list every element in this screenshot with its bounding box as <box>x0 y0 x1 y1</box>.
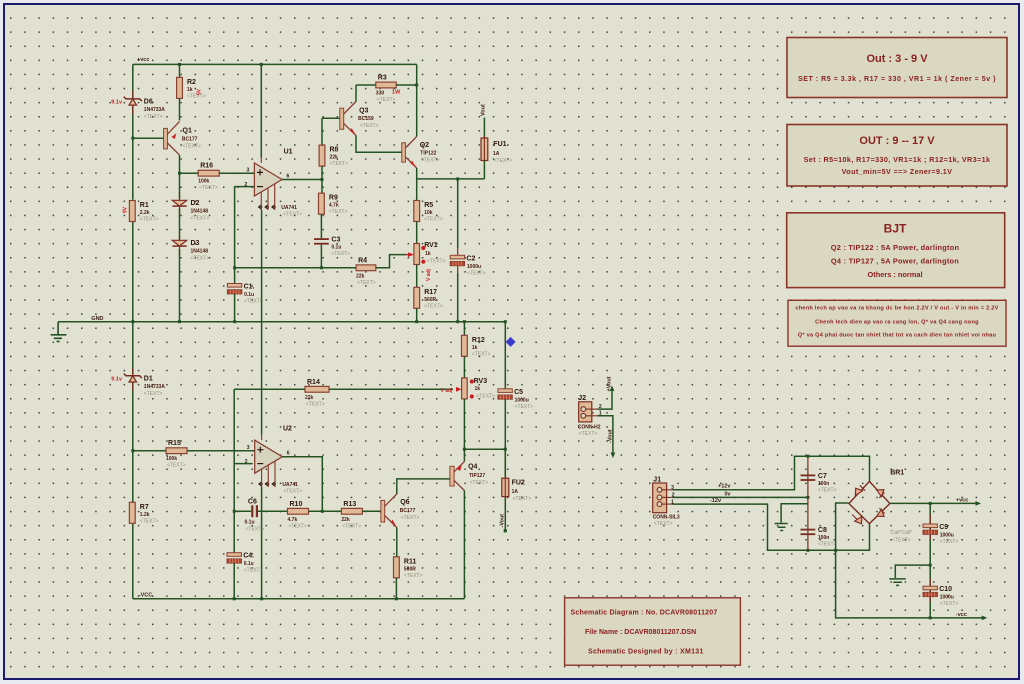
svg-text:<TEXT>: <TEXT> <box>818 488 837 494</box>
svg-text:<TEXT>: <TEXT> <box>182 144 201 150</box>
junction bridge left drop / -12v path <box>834 549 837 552</box>
junction U2 out / R10-R13 wire <box>321 510 324 513</box>
svg-text:<TEXT>: <TEXT> <box>404 573 423 579</box>
wire C6 left lead <box>234 510 251 512</box>
wire U2 output <box>282 457 322 512</box>
wire C3 to R4 node <box>320 245 322 268</box>
svg-text:UA741: UA741 <box>281 205 297 211</box>
svg-text:<TEXT>: <TEXT> <box>470 480 489 486</box>
note box warnings <box>788 300 1006 346</box>
svg-text:-Vout: -Vout <box>608 429 614 443</box>
svg-text:D6: D6 <box>144 99 153 106</box>
wire C6 to R10 <box>258 510 288 512</box>
junction C3 / R4 wire <box>320 266 323 269</box>
ground symbol near C9 <box>889 579 905 586</box>
svg-text:TIP127: TIP127 <box>469 473 485 479</box>
pin number U1.3 <box>247 168 250 174</box>
svg-text:R16: R16 <box>200 163 213 170</box>
svg-text:TIP122: TIP122 <box>420 150 436 156</box>
svg-text:CONN-SIL3: CONN-SIL3 <box>653 514 680 520</box>
svg-text:R8: R8 <box>330 147 339 154</box>
resistor R2 <box>177 77 206 99</box>
arrow -vcc <box>982 616 988 621</box>
svg-text:1.2k: 1.2k <box>140 512 150 518</box>
svg-text:R5: R5 <box>424 202 433 209</box>
wire ground branch at J1 <box>781 504 808 523</box>
junction U2 V- / -vcc rail <box>260 597 263 600</box>
svg-text:R2: R2 <box>187 79 196 86</box>
potentiometer RV3 <box>462 378 474 399</box>
transistor Q2 body <box>402 137 417 169</box>
wire D2-D3 <box>179 208 181 239</box>
svg-text:Chenh lech dien ap vao ra cang: Chenh lech dien ap vao ra cang lon, Q* v… <box>815 320 979 326</box>
wire R17 bottom <box>416 308 418 321</box>
wire C10 pins (maroon) <box>929 578 931 602</box>
wire bridge - output to -vcc <box>836 503 983 618</box>
resistor R5 <box>414 201 443 223</box>
svg-text:0.1u: 0.1u <box>244 292 254 298</box>
wire left rail upper <box>132 64 134 199</box>
net label +vcc right <box>956 497 968 503</box>
junction 0v / C7-C8 column <box>806 496 809 499</box>
svg-text:CONN-H2: CONN-H2 <box>578 425 601 431</box>
wire J1 pin2 (0v) <box>673 496 808 498</box>
resistor R16 <box>198 163 219 192</box>
label RV3 <box>474 378 495 400</box>
svg-text:<TEXT>: <TEXT> <box>191 255 210 261</box>
wire feedback column to C4 <box>233 464 235 553</box>
svg-text:C10: C10 <box>939 586 952 593</box>
svg-text:Others : normal: Others : normal <box>867 270 922 279</box>
svg-text:3: 3 <box>247 168 250 174</box>
resistor R15 <box>166 440 187 469</box>
wire R14 left segment <box>234 388 305 390</box>
wire C7-C8 column <box>807 456 809 550</box>
wire R3 right <box>396 84 417 86</box>
annotation 9V (red, rotated) <box>123 206 129 213</box>
wire RV3 node to C5 node <box>464 448 505 450</box>
wire U1 output <box>282 179 322 181</box>
svg-text:560R: 560R <box>404 566 416 572</box>
svg-text:<TEXT>: <TEXT> <box>424 303 443 309</box>
wire left rail mid <box>132 222 134 375</box>
pin number U1.2 <box>245 182 248 188</box>
wire C2 bottom pin <box>457 266 459 273</box>
junction C9-C10 / ground branch <box>929 564 932 567</box>
wire J2 pin1 to -Vout arrow <box>598 416 613 454</box>
wire bridge + output to +vcc <box>891 502 977 504</box>
wire J1 pin3 (+12v) to bridge <box>673 456 870 490</box>
svg-text:9.1v: 9.1v <box>111 100 123 106</box>
svg-text:<TEXT>: <TEXT> <box>330 161 349 167</box>
svg-text:1N4733A: 1N4733A <box>144 384 166 390</box>
svg-text:0.1u: 0.1u <box>244 561 254 567</box>
wire R2 top <box>179 64 181 77</box>
svg-text:FU1: FU1 <box>493 141 506 148</box>
svg-text:+vcc: +vcc <box>137 57 149 63</box>
svg-text:1k: 1k <box>475 386 481 392</box>
wire -vcc rail <box>133 598 465 600</box>
label J2 value <box>578 425 601 437</box>
wire vcc right drop <box>416 64 418 136</box>
svg-text:1000u: 1000u <box>515 397 529 403</box>
svg-text:C4.: C4. <box>243 553 254 560</box>
svg-text:R17: R17 <box>424 289 437 296</box>
wire Q6 collector to Q4 base <box>397 479 450 494</box>
svg-text:D1: D1 <box>144 376 153 383</box>
note box BJT <box>787 213 1005 288</box>
resistor R9 <box>319 193 348 215</box>
svg-text:1000u: 1000u <box>467 264 481 270</box>
junction C5 / RV3 node <box>504 448 507 451</box>
svg-text:V adj: V adj <box>426 268 432 281</box>
svg-text:22k: 22k <box>330 155 339 161</box>
wire D3 to ground rail <box>179 249 181 322</box>
junction R16 tap <box>178 172 181 175</box>
wire C5 bottom lead <box>504 399 506 478</box>
svg-text:Q4 : TIP127 , 5A Power, darlin: Q4 : TIP127 , 5A Power, darlington <box>831 257 959 266</box>
svg-text:Q4: Q4 <box>468 464 477 471</box>
svg-text:<TEXT>: <TEXT> <box>331 251 350 257</box>
wire C2 top lead <box>457 179 459 248</box>
junction R4 left node <box>233 266 236 269</box>
junction +vcc / U1 supply <box>260 63 263 66</box>
svg-text:<TEXT>: <TEXT> <box>144 391 163 397</box>
junction C8 bottom / -12v path <box>806 549 809 552</box>
svg-text:+vcc: +vcc <box>956 497 968 503</box>
label Q1 <box>182 128 201 150</box>
wire C2 bottom lead <box>457 273 459 322</box>
net label -Vout J2 (rotated) <box>608 429 614 443</box>
junction C1 / ground rail <box>233 320 236 323</box>
zener diode D6 <box>111 91 165 120</box>
svg-text:Vout_min=5V ==> Zener=9.1V: Vout_min=5V ==> Zener=9.1V <box>842 167 953 176</box>
pin number U1.6 <box>287 174 290 180</box>
svg-text:<TEXT>: <TEXT> <box>892 538 911 544</box>
wire FU1 bottom <box>483 161 485 179</box>
svg-text:'CaP'CaP': 'CaP'CaP' <box>890 530 912 536</box>
svg-text:<TEXT>: <TEXT> <box>467 270 486 276</box>
fuse FU1 <box>481 136 488 162</box>
pin number U2.6 <box>287 451 290 457</box>
label Q2 <box>420 142 440 163</box>
wire Q1 emitter down <box>179 155 181 199</box>
svg-text:RV1: RV1 <box>424 242 438 249</box>
label U2 <box>283 426 292 433</box>
svg-text:<TEXT>: <TEXT> <box>360 123 379 129</box>
capacitor C6 <box>251 505 258 517</box>
svg-text:Set : R5=10k, R17=330, VR1=1k: Set : R5=10k, R17=330, VR1=1k ; R12=1k, … <box>804 155 991 164</box>
wire J2 pin2 to +Vout arrow <box>598 390 613 409</box>
svg-text:<TEXT>: <TEXT> <box>283 212 302 218</box>
connector J1 <box>653 483 673 513</box>
svg-text:560R: 560R <box>424 297 436 303</box>
svg-text:R4: R4 <box>358 257 367 264</box>
svg-text:330: 330 <box>376 91 385 97</box>
svg-text:<TEXT>: <TEXT> <box>515 404 534 410</box>
svg-text:1k: 1k <box>187 87 193 93</box>
junction C6 node on feedback column <box>233 510 236 513</box>
svg-text:<TEXT>: <TEXT> <box>342 523 361 529</box>
svg-text:C3: C3 <box>331 237 340 244</box>
wire Q1 base <box>133 137 166 139</box>
junction R3 / vcc drop <box>415 84 418 87</box>
svg-text:<TEXT>: <TEXT> <box>476 393 495 399</box>
resistor R17 <box>414 287 443 309</box>
svg-text:R7: R7 <box>140 504 149 511</box>
svg-text:R1: R1 <box>140 202 149 209</box>
svg-text:<TEXT>: <TEXT> <box>140 518 159 524</box>
wire RV1-R17 <box>416 265 418 288</box>
junction C5 / ground rail <box>504 320 507 323</box>
wire R15 to U2 +in <box>187 450 255 452</box>
label U1 value <box>281 205 302 218</box>
svg-text:1k: 1k <box>472 345 478 351</box>
resistor R4 <box>356 257 376 286</box>
pin number J1.3 <box>671 485 674 491</box>
pin number U2.2 <box>245 459 248 465</box>
svg-text:1A: 1A <box>512 489 519 495</box>
svg-text:100k: 100k <box>166 456 177 462</box>
svg-text:D3: D3 <box>191 240 200 247</box>
capacitor C4 <box>227 553 262 574</box>
svg-text:<TEXT>: <TEXT> <box>940 539 959 545</box>
svg-text:9.1v: 9.1v <box>111 377 123 383</box>
note box OUT 9-17V <box>787 125 1007 187</box>
svg-text:OUT : 9 -- 17 V: OUT : 9 -- 17 V <box>859 135 935 147</box>
svg-text:1N4148: 1N4148 <box>191 248 209 254</box>
svg-text:2: 2 <box>245 459 248 465</box>
svg-text:4.7k: 4.7k <box>329 203 339 209</box>
wire R14 right segment <box>329 388 453 390</box>
svg-text:-VCC: -VCC <box>139 592 152 598</box>
terminal -Vout <box>504 529 507 532</box>
capacitor C7 <box>801 473 837 494</box>
wire R13 to Q6 base <box>362 510 381 512</box>
resistor R1 <box>129 201 158 223</box>
zener diode D1 <box>111 368 165 397</box>
annotation 5V (red, rotated) <box>197 88 203 95</box>
svg-text:C5: C5 <box>514 389 523 396</box>
net label +vcc <box>137 57 149 63</box>
resistor R13 <box>341 501 362 530</box>
svg-text:UA741: UA741 <box>282 482 298 488</box>
arrow +Vout <box>610 386 615 392</box>
resistor R8 <box>319 145 348 167</box>
pin number J1.1 <box>671 499 674 505</box>
svg-text:BJT: BJT <box>884 222 907 236</box>
svg-text:<TEXT>: <TEXT> <box>940 601 959 607</box>
svg-text:R10: R10 <box>290 501 303 508</box>
junction RV3 bottom corner <box>463 448 466 451</box>
wire U1-U2 supply link <box>261 210 263 435</box>
label U2 value <box>282 482 302 495</box>
op-amp U1 <box>254 158 282 211</box>
svg-text:J2: J2 <box>578 395 586 402</box>
wire FU2 top <box>504 449 506 478</box>
junction C9 / +vcc wire <box>929 502 932 505</box>
svg-text:C9: C9 <box>939 524 948 531</box>
svg-text:Q2 : TIP122 : 5A Power, darlin: Q2 : TIP122 : 5A Power, darlington <box>831 243 960 252</box>
wire feedback down to U2 -in <box>234 389 253 463</box>
note box Out 3-9V <box>787 38 1007 98</box>
wire C5 top lead <box>504 322 506 389</box>
svg-text:22k: 22k <box>341 517 350 523</box>
label U1 <box>284 149 293 156</box>
svg-text:+12v: +12v <box>718 484 731 490</box>
title block <box>565 598 741 665</box>
fuse FU2 <box>502 477 509 499</box>
junction R11 / -vcc rail <box>395 597 398 600</box>
svg-text:<TEXT>: <TEXT> <box>244 568 263 574</box>
label J1 <box>653 476 661 483</box>
wire R16 to U1 +in <box>219 172 254 174</box>
op-amp U2 <box>255 435 283 487</box>
svg-text:R13: R13 <box>343 501 356 508</box>
svg-text:Q3: Q3 <box>359 107 368 114</box>
junction C10 / -vcc wire <box>929 616 932 619</box>
junction R17 / ground rail <box>415 320 418 323</box>
arrow -Vout <box>611 453 616 459</box>
svg-text:1000u: 1000u <box>940 533 954 539</box>
junction +vcc / R2 <box>178 63 181 66</box>
svg-text:-12v: -12v <box>710 498 722 504</box>
svg-text:0.1u: 0.1u <box>245 519 255 525</box>
svg-text:SET : R5 = 3.3k , R17 = 330 ,: SET : R5 = 3.3k , R17 = 330 , VR1 = 1k (… <box>798 75 996 83</box>
svg-text:<TEXT>: <TEXT> <box>283 489 302 495</box>
wire left rail lower <box>132 383 134 503</box>
svg-text:Out : 3 - 9 V: Out : 3 - 9 V <box>866 53 928 65</box>
svg-text:R9: R9 <box>329 195 338 202</box>
wire R5 top <box>416 179 418 201</box>
capacitor C5 <box>498 389 533 410</box>
svg-text:BC159: BC159 <box>358 116 374 122</box>
svg-text:V adj: V adj <box>441 388 454 394</box>
wire Q3 emitter to Q2 base <box>356 136 402 153</box>
pin number J1.2 <box>672 493 675 499</box>
junction Q1 base / left rail <box>131 137 134 140</box>
wire U1 -in to C1/R4 node <box>235 187 255 284</box>
svg-text:U2: U2 <box>283 426 292 433</box>
net label Vout (rotated) <box>481 104 487 116</box>
svg-text:<TEXT>: <TEXT> <box>329 209 348 215</box>
svg-text:chenh lech ap vao va ra khong: chenh lech ap vao va ra khong dc be hon … <box>795 306 998 312</box>
svg-text:<TEXT>: <TEXT> <box>244 299 263 305</box>
wiper arrow RV1 (red) <box>406 252 414 257</box>
wire R11 bottom <box>395 578 397 599</box>
svg-text:<TEXT>: <TEXT> <box>357 280 376 286</box>
svg-text:<TEXT>: <TEXT> <box>401 515 420 521</box>
wire FU1 top <box>483 118 485 139</box>
wire Q3 collector up <box>355 85 357 102</box>
svg-text:100n: 100n <box>818 535 829 541</box>
svg-text:<TEXT>: <TEXT> <box>818 542 837 548</box>
svg-text:RV3: RV3 <box>474 378 488 385</box>
wire Q6 emitter to R11 <box>396 528 398 557</box>
svg-text:<TEXT>: <TEXT> <box>472 351 491 357</box>
pin number J2.1 <box>599 410 602 416</box>
svg-text:Vout: Vout <box>481 104 487 116</box>
label Q6 <box>400 499 420 521</box>
svg-text:<TEXT>: <TEXT> <box>306 401 325 407</box>
wire J1 pin1 (-12v) <box>673 504 870 550</box>
wire +vcc top rail <box>133 63 417 65</box>
potentiometer RV1 <box>414 244 426 265</box>
svg-text:1W: 1W <box>392 90 401 96</box>
svg-text:R12: R12 <box>472 337 485 344</box>
arrow +vcc <box>976 501 982 506</box>
wire Q2 emitter down <box>417 168 485 179</box>
wire FU2 bottom stub <box>504 497 506 531</box>
wire R12 top <box>463 322 465 336</box>
svg-text:U1: U1 <box>284 149 293 156</box>
wire R8-R9 <box>321 166 323 193</box>
capacitor C2 <box>450 255 485 276</box>
svg-text:<TEXT>: <TEXT> <box>579 431 598 437</box>
pin number J2.2 <box>599 404 602 410</box>
svg-text:Q2: Q2 <box>420 142 429 149</box>
capacitor C9 <box>923 524 958 545</box>
wire R9 to C3 <box>320 214 322 238</box>
svg-text:<TEXT>: <TEXT> <box>246 526 265 532</box>
net label +12v <box>718 484 731 490</box>
svg-text:1N4733A: 1N4733A <box>144 107 166 113</box>
wire left rail bottom <box>132 524 134 599</box>
wire R16 left <box>180 172 199 174</box>
svg-text:100k: 100k <box>198 179 209 185</box>
resistor R11 <box>394 557 423 579</box>
capacitor C8 <box>801 527 837 548</box>
resistor R14 <box>305 379 329 408</box>
svg-text:6: 6 <box>287 174 290 180</box>
wire Q3 base <box>322 117 342 119</box>
svg-text:Schematic Diagram : No. DCAVR0: Schematic Diagram : No. DCAVR08011207 <box>571 610 718 617</box>
wire R4 left <box>235 267 357 269</box>
svg-text:File Name : DCAVR08011207.DSN: File Name : DCAVR08011207.DSN <box>585 629 696 636</box>
net label -vcc right <box>956 612 967 618</box>
svg-text:C6: C6 <box>248 498 257 505</box>
diode D2 <box>172 192 209 221</box>
wire R8 top <box>321 118 323 145</box>
junction C4 / -vcc rail <box>233 597 236 600</box>
svg-text:<TEXT>: <TEXT> <box>513 496 532 502</box>
junction R12 / ground rail <box>463 320 466 323</box>
svg-text:<TEXT>: <TEXT> <box>377 97 396 103</box>
junction C2 / ground rail <box>456 320 459 323</box>
wire R2 bottom to Q1 collector <box>179 99 181 121</box>
wire R3 left <box>356 84 376 86</box>
svg-text:<TEXT>: <TEXT> <box>289 523 308 529</box>
svg-text:0v: 0v <box>725 491 732 497</box>
svg-text:-vcc: -vcc <box>956 612 967 618</box>
wire R4 right to RV1 wiper <box>376 255 408 268</box>
wire C4 bottom <box>233 563 235 599</box>
svg-text:FU2: FU2 <box>512 479 525 486</box>
svg-text:C1.: C1. <box>244 284 255 291</box>
ground symbol (main rail) <box>51 322 67 342</box>
wire RV3 bottom <box>463 399 465 462</box>
transistor Q1 body <box>164 122 180 156</box>
svg-text:<TEXT>: <TEXT> <box>494 158 513 164</box>
svg-text:GND: GND <box>91 316 103 322</box>
transistor Q6 body <box>381 494 397 528</box>
wire R10 to R13 <box>309 510 342 512</box>
svg-text:BC177: BC177 <box>400 508 416 514</box>
wire U2 V- to -vcc rail <box>261 487 263 599</box>
svg-text:R11: R11 <box>404 558 417 565</box>
svg-text:<TEXT>: <TEXT> <box>144 114 163 120</box>
wire ground rail <box>58 321 505 323</box>
